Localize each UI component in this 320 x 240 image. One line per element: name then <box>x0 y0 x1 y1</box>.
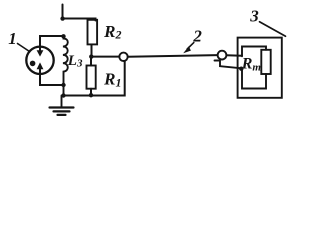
top wire to R2 <box>63 19 96 21</box>
R1 bottom lead <box>90 89 92 96</box>
svg-text:3: 3 <box>249 6 259 25</box>
svg-text:R2: R2 <box>103 22 121 41</box>
tube bottom lead wire <box>40 75 64 86</box>
gas filling dot <box>30 61 36 67</box>
junction node at coil bottom <box>61 83 65 87</box>
junction node stub <box>239 67 243 71</box>
earth ground symbol <box>61 96 63 108</box>
wire into instrument box <box>227 54 243 56</box>
R1 top lead <box>90 57 92 66</box>
tube top electrode arrow (pointing down) <box>39 46 41 51</box>
resistor R2 <box>88 20 98 45</box>
resistor R1 <box>87 66 96 89</box>
R2 bottom lead <box>91 45 93 57</box>
svg-text:R1: R1 <box>103 70 121 90</box>
tube bottom electrode arrow (pointing up) <box>39 69 41 75</box>
signal wire to left connector <box>92 56 120 58</box>
junction node R2/R1/line <box>89 54 93 58</box>
measuring loop: signal side <box>242 47 266 57</box>
svg-text:L3: L3 <box>67 53 83 70</box>
junction node at coil top <box>61 34 65 38</box>
transmission line 2 <box>128 55 218 57</box>
HV supply stub <box>62 5 64 19</box>
svg-text:Rm: Rm <box>241 55 262 73</box>
junction node supply T <box>60 16 64 20</box>
left connector circle <box>119 53 127 61</box>
shield stub at right connector <box>215 61 242 69</box>
instrument box (item 3) <box>238 38 282 98</box>
junction node bus left <box>61 93 65 97</box>
tube top lead wire <box>40 36 64 47</box>
svg-text:1: 1 <box>8 29 16 48</box>
leader line for 3 <box>260 22 286 36</box>
counter tube (item 1) envelope <box>26 47 53 74</box>
resistor Rm <box>261 50 270 74</box>
ground bus <box>64 61 125 95</box>
junction node R1 bottom <box>89 93 93 97</box>
inductor L3 <box>63 36 68 95</box>
leader arrow for 2 <box>187 43 194 49</box>
leader line from 1 to tube <box>18 44 30 52</box>
right connector circle <box>218 51 227 60</box>
measuring loop: return side <box>242 68 266 88</box>
